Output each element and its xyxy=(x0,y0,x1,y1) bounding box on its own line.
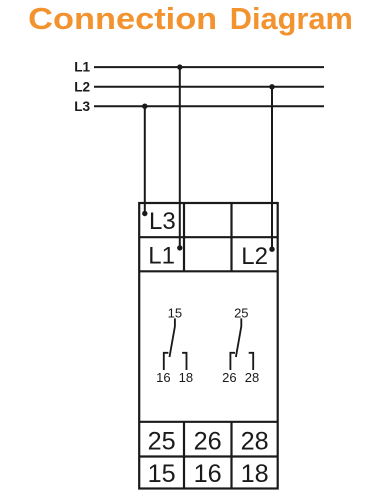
svg-text:16: 16 xyxy=(194,460,222,488)
wire L3 drop to terminal L3 xyxy=(144,106,146,213)
wire L3 horizontal xyxy=(94,105,324,107)
svg-text:28: 28 xyxy=(245,370,259,385)
terminal dot L1 xyxy=(177,245,182,250)
svg-text:L1: L1 xyxy=(148,242,175,269)
terminal dot L3 xyxy=(142,211,147,216)
svg-text:25: 25 xyxy=(148,428,176,456)
contact K2 pole blade (25) xyxy=(236,318,241,357)
svg-text:15: 15 xyxy=(148,460,176,488)
svg-text:25: 25 xyxy=(234,305,248,320)
contact K1 NO terminal (18) xyxy=(182,353,186,370)
svg-text:L2: L2 xyxy=(241,243,268,270)
contact K2 NO terminal (28) xyxy=(249,353,254,370)
wire L2 horizontal xyxy=(94,86,324,88)
contact K2 NC terminal (26) xyxy=(230,353,235,370)
wire L1 drop to terminal L1 xyxy=(179,67,181,248)
contact K1 pole blade (15) xyxy=(170,318,175,357)
svg-text:18: 18 xyxy=(179,370,193,385)
svg-text:L3: L3 xyxy=(149,208,176,235)
junction dot on L1 xyxy=(177,64,182,69)
svg-text:L2: L2 xyxy=(74,79,90,94)
svg-text:L3: L3 xyxy=(74,99,90,114)
svg-text:26: 26 xyxy=(222,370,236,385)
svg-text:Connection: Connection xyxy=(28,2,217,36)
wire L2 drop to terminal L2 xyxy=(271,87,273,249)
svg-text:Diagram: Diagram xyxy=(230,2,353,36)
svg-text:16: 16 xyxy=(156,370,170,385)
svg-text:15: 15 xyxy=(168,305,182,320)
junction dot on L2 xyxy=(269,84,274,89)
junction dot on L3 xyxy=(142,104,147,109)
contact K1 NC terminal (16) xyxy=(164,353,169,370)
relay device outline xyxy=(139,203,278,489)
svg-text:18: 18 xyxy=(241,460,269,488)
wire L1 horizontal xyxy=(94,66,324,68)
svg-text:L1: L1 xyxy=(74,60,90,75)
svg-text:26: 26 xyxy=(194,428,222,456)
terminal dot L2 xyxy=(269,247,274,252)
svg-text:28: 28 xyxy=(241,428,269,456)
